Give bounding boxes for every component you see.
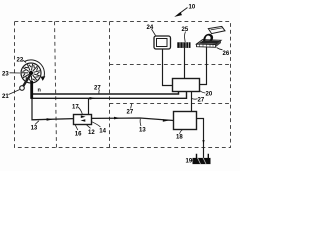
svg-text:13: 13: [139, 128, 146, 134]
svg-text:10: 10: [189, 5, 196, 11]
svg-text:24: 24: [147, 25, 154, 31]
svg-text:21: 21: [2, 94, 9, 100]
svg-text:17: 17: [72, 105, 79, 111]
svg-text:25: 25: [182, 27, 189, 33]
svg-text:14: 14: [99, 128, 106, 134]
svg-text:18: 18: [176, 135, 183, 141]
svg-text:23: 23: [2, 72, 9, 78]
svg-text:16: 16: [75, 131, 82, 137]
svg-text:27: 27: [198, 98, 205, 104]
svg-text:n: n: [38, 88, 42, 94]
svg-text:12: 12: [88, 130, 95, 136]
svg-text:13: 13: [31, 125, 38, 131]
svg-text:27: 27: [94, 86, 101, 92]
svg-text:19: 19: [186, 159, 193, 165]
svg-text:26: 26: [223, 51, 230, 57]
svg-text:22: 22: [17, 58, 24, 64]
svg-text:20: 20: [206, 92, 213, 98]
svg-text:27: 27: [127, 110, 134, 116]
